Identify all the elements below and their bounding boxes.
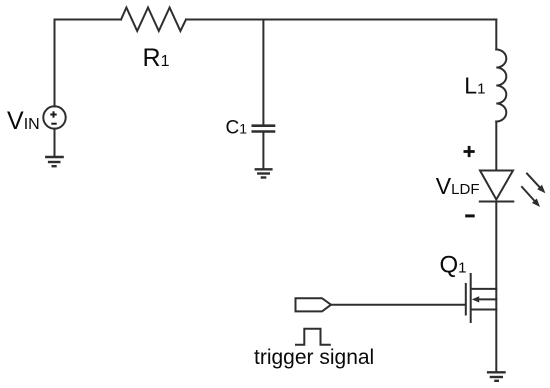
emission arrow 1 shaft <box>527 174 541 189</box>
emission arrow 2 head <box>532 199 540 208</box>
wire top-right horizontal <box>186 19 496 21</box>
emission arrow 1 head <box>537 185 545 194</box>
MOSFET Q1 body connection <box>478 298 496 300</box>
MOSFET Q1 drain connection <box>472 288 497 290</box>
trigger pulse symbol <box>296 329 330 345</box>
inductor L1 <box>496 50 506 122</box>
MOSFET Q1 channel bar <box>470 274 472 322</box>
wire V_IN to ground <box>54 129 56 157</box>
laser diode cathode bar <box>480 201 514 203</box>
svg-text:C1: C1 <box>226 117 248 138</box>
diode plus polarity mark <box>464 146 475 157</box>
wire C1 to ground <box>262 133 264 169</box>
wire C1 vertical from top wire <box>262 20 264 125</box>
MOSFET Q1 source connection <box>472 309 497 311</box>
wire gate lead <box>331 304 465 306</box>
MOSFET Q1 gate bar <box>465 284 467 315</box>
wire diode to mosfet drain and on down to ground <box>495 202 497 372</box>
ground (C1) <box>255 169 273 177</box>
wire inductor to diode <box>495 122 497 171</box>
voltage source V_IN circle <box>43 106 65 128</box>
ground (V_IN) <box>45 157 64 166</box>
MOSFET body arrow head <box>472 296 479 302</box>
ground (Q1 source) <box>487 372 506 381</box>
svg-text:trigger signal: trigger signal <box>254 346 374 369</box>
wire V_IN vertical top <box>54 20 56 107</box>
diode minus polarity mark <box>465 214 475 217</box>
V_IN source plus sign <box>50 111 56 123</box>
resistor R1 <box>121 8 186 32</box>
emission arrow 2 shaft <box>522 187 536 203</box>
V_IN source minus sign <box>51 123 56 125</box>
trigger input pentagon <box>296 298 332 311</box>
laser diode V_LDF triangle <box>480 171 513 200</box>
wire right vertical to inductor <box>495 20 497 50</box>
capacitor C1 plates <box>252 126 276 132</box>
wire top-left horizontal <box>55 19 122 21</box>
